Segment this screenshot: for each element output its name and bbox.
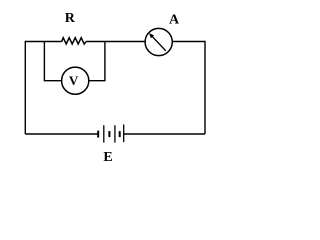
svg-text:E: E (103, 150, 112, 165)
wire left side (24, 41, 26, 134)
ammeter A (145, 28, 172, 55)
svg-text:A: A (169, 12, 180, 27)
wire top-middle segment (86, 41, 145, 43)
resistor R (62, 38, 86, 44)
wire bottom-left segment (25, 133, 98, 135)
wire bottom-right segment (124, 133, 205, 135)
ammeter needle (149, 33, 166, 51)
wire voltmeter branch right vertical (89, 42, 105, 81)
wire top-left segment (25, 41, 61, 43)
voltmeter V (62, 67, 89, 94)
wire voltmeter branch left vertical (44, 42, 61, 81)
wire top-right segment (172, 41, 205, 43)
svg-text:V: V (69, 73, 79, 88)
wire right side (204, 41, 206, 134)
battery E (98, 125, 124, 143)
svg-text:R: R (65, 11, 76, 26)
